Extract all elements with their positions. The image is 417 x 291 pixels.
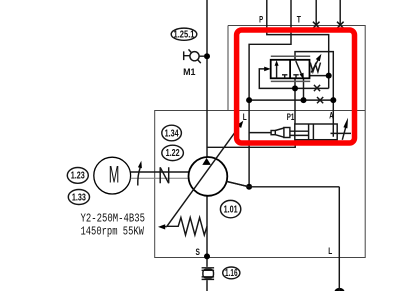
gauge point M1 xyxy=(183,49,204,78)
proportional valve U (2-position) xyxy=(271,54,322,82)
label ellipse 1.01 xyxy=(220,200,240,217)
poppet bar xyxy=(284,128,290,138)
svg-text:S: S xyxy=(196,247,201,258)
label ellipse 1.33 xyxy=(68,190,89,205)
blocked port T marks xyxy=(282,75,299,79)
poppet cone xyxy=(275,128,284,137)
svg-text:L: L xyxy=(243,112,247,123)
svg-text:L: L xyxy=(328,246,332,257)
cylinder / control piston assembly xyxy=(207,118,351,148)
svg-text:1.33: 1.33 xyxy=(72,192,86,203)
X mark on pilot/drain line xyxy=(314,85,320,91)
svg-text:P: P xyxy=(259,15,263,26)
valve spring W xyxy=(310,63,320,72)
svg-text:M1: M1 xyxy=(183,67,196,78)
motor M1 (electric) xyxy=(94,157,131,194)
valve body xyxy=(271,60,310,79)
label ellipse 1.22 xyxy=(162,145,184,160)
pump P1 (variable displacement) xyxy=(158,121,249,235)
node: junction center xyxy=(301,97,307,103)
svg-text:1.16: 1.16 xyxy=(225,268,238,279)
X mark on junction line xyxy=(317,97,323,103)
svg-text:P1: P1 xyxy=(287,112,295,123)
adjuster arrow xyxy=(342,126,346,140)
svg-text:T: T xyxy=(297,15,301,26)
wire: pump pressure line (vertical, to top edge) xyxy=(206,0,208,158)
node: M1 junction dot xyxy=(204,53,210,59)
wire: plugged line 2 xyxy=(339,0,341,26)
case drain connector xyxy=(226,181,249,187)
label ellipse 1.23 xyxy=(67,168,88,184)
right adjuster tick xyxy=(331,132,352,134)
filter 1.16 xyxy=(202,268,215,280)
control spring xyxy=(167,218,207,236)
red highlight box xyxy=(237,30,355,143)
wire: junction line below valve xyxy=(249,99,333,101)
node: junction T/drain left xyxy=(246,97,252,103)
pilot arrowhead into valve xyxy=(264,67,271,72)
flow triangle xyxy=(202,158,211,165)
wire: T return line from top xyxy=(249,0,291,187)
svg-text:A: A xyxy=(329,110,333,121)
rotation arrow xyxy=(138,167,141,185)
wire: pump suction line to S and filter xyxy=(206,196,208,291)
node: valve bottom dot xyxy=(292,85,298,91)
cylinder body xyxy=(295,124,337,140)
piston lines xyxy=(309,124,314,140)
left square up arrow xyxy=(276,64,278,79)
plug X mark 1 xyxy=(313,22,320,29)
plug X mark 2 xyxy=(337,22,344,29)
node: drain outlet blob at image bottom xyxy=(335,288,345,291)
node: S junction xyxy=(204,253,210,259)
rod lines xyxy=(290,131,309,135)
poppet tip xyxy=(271,131,275,135)
spring adjust arrow xyxy=(311,60,318,72)
wire: spring side link to vertical xyxy=(310,75,329,77)
label ellipse 1.16 xyxy=(223,267,240,279)
wire: drain line to L port bottom xyxy=(226,181,339,291)
label ellipse 1.34 xyxy=(162,125,182,141)
svg-text:1.22: 1.22 xyxy=(166,148,180,159)
svg-text:1450rpm 55KW: 1450rpm 55KW xyxy=(80,225,144,239)
wire: pilot line loop (valve left to lower line) xyxy=(259,69,328,89)
enclosure: power unit boundary (stepped box) xyxy=(155,26,366,258)
svg-text:1.01: 1.01 xyxy=(224,204,238,215)
wire: valve right square bottom tick xyxy=(303,78,305,100)
proportional lines above/below xyxy=(271,56,310,81)
wire: plugged line 1 xyxy=(315,0,317,26)
wire: valve bottom port / P1 line down to cylinder xyxy=(294,78,296,124)
node: drain junction at pump xyxy=(246,184,252,190)
displacement arrow xyxy=(167,125,240,226)
wire: cylinder bottom to pump outlet xyxy=(207,140,295,148)
node: junction right (A) xyxy=(330,97,336,103)
shaft coupling xyxy=(131,161,189,186)
label ellipse 1.25.1 xyxy=(171,28,197,40)
node: spring side dot xyxy=(326,73,332,79)
svg-text:M: M xyxy=(109,162,120,189)
wire: feed line from L xyxy=(249,132,271,134)
svg-text:1.25.1: 1.25.1 xyxy=(174,29,195,40)
svg-text:1.23: 1.23 xyxy=(71,171,85,182)
right square diagonal arrow xyxy=(296,61,302,76)
svg-text:1.34: 1.34 xyxy=(165,128,179,139)
wire: valve top port to A branch xyxy=(295,52,333,137)
svg-text:Y2-250M-4B35: Y2-250M-4B35 xyxy=(80,211,145,225)
wire: P supply line from top xyxy=(267,0,329,88)
